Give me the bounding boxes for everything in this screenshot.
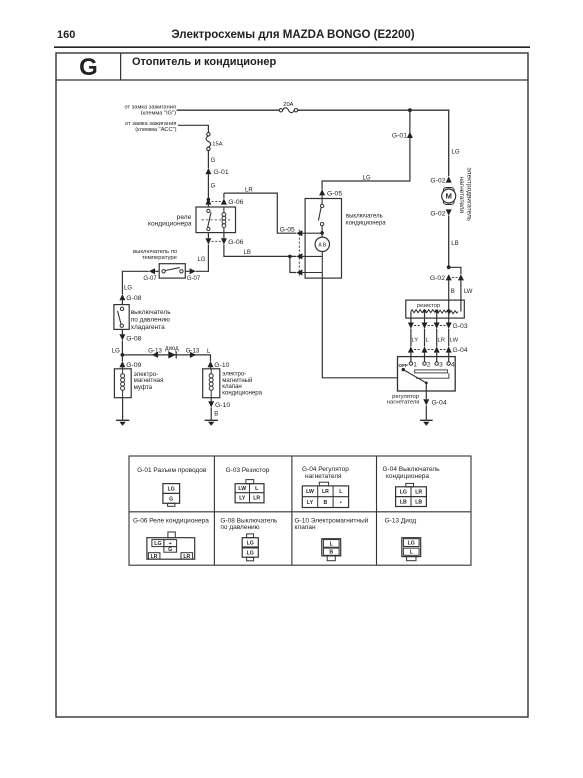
svg-text:B: B — [214, 411, 218, 417]
cell G-04 выключатель кондиционера — [383, 466, 441, 480]
svg-text:муфта: муфта — [134, 384, 153, 391]
svg-text:кондиционера: кондиционера — [148, 221, 192, 228]
svg-text:температуре: температуре — [142, 255, 178, 261]
connector G-08 top — [119, 294, 141, 302]
svg-text:LR: LR — [253, 496, 260, 502]
svg-text:электродвигатель: электродвигатель — [466, 168, 473, 222]
connector G-05 top — [319, 189, 342, 197]
junction dot LB split — [447, 265, 451, 269]
svg-text:G-04 Выключатель: G-04 Выключатель — [383, 466, 441, 473]
wire pin1 stub — [302, 232, 322, 234]
svg-text:A B: A B — [318, 242, 326, 248]
svg-text:G: G — [211, 183, 216, 189]
svg-text:по давлению: по давлению — [131, 317, 170, 324]
connector G-07 left — [143, 268, 159, 282]
connector G-08 bottom — [119, 329, 141, 342]
cell G-08 выключатель по давлению — [220, 518, 278, 532]
svg-text:LB: LB — [415, 500, 422, 506]
wire IG feed right segment — [298, 109, 450, 111]
svg-text:G-01 Разъем проводов: G-01 Разъем проводов — [137, 467, 207, 474]
svg-text:клапан: клапан — [295, 524, 316, 531]
wire valve to ground — [210, 407, 212, 419]
connector G-13 right — [186, 348, 200, 358]
svg-text:магнитный: магнитный — [222, 377, 252, 384]
wire branch to LW — [449, 267, 461, 274]
junction dot at relay feed — [207, 198, 211, 202]
svg-text:LG: LG — [197, 257, 205, 263]
connector G-01 (on LG wire) — [392, 132, 413, 140]
svg-text:G: G — [79, 54, 98, 81]
cell G-04 регулятор нагнетателя — [302, 466, 349, 480]
ground (regulator) — [420, 420, 433, 426]
relay A/C (реле кондиционера) — [196, 207, 236, 233]
label pressure switch — [131, 309, 172, 331]
connector G-06 top pair — [205, 198, 243, 206]
wire label B — [214, 411, 218, 417]
connector G-07 right — [185, 268, 201, 282]
svg-text:кондиционера: кондиционера — [222, 391, 262, 397]
wire ACC feed — [178, 125, 208, 132]
svg-text:LB: LB — [451, 241, 458, 247]
junction dot at IG split — [408, 108, 412, 112]
svg-text:LG: LG — [363, 176, 371, 182]
wire clutch to ground — [122, 398, 124, 420]
svg-text:выключатель: выключатель — [131, 309, 172, 316]
svg-text:G-08: G-08 — [126, 295, 141, 302]
wire relay bottom stubs — [208, 233, 224, 239]
connector drawing G-13 — [402, 538, 421, 561]
label выключатель по температуре — [133, 249, 178, 261]
cell G-06 реле кондиционера — [133, 518, 209, 525]
label реле кондиционера — [148, 214, 192, 228]
blower motor M — [442, 188, 456, 205]
svg-text:G-02: G-02 — [430, 178, 445, 185]
wire temp switch to pressure switch — [122, 271, 148, 294]
resistor block G-03 (резистор) — [406, 300, 465, 318]
wire labels LY L LR LW — [412, 337, 459, 343]
junction dot LB — [288, 255, 292, 259]
svg-text:LG: LG — [400, 490, 407, 496]
svg-text:B: B — [451, 289, 455, 295]
svg-text:G-07: G-07 — [187, 276, 201, 282]
ground (clutch) — [116, 420, 129, 426]
svg-text:B: B — [324, 500, 328, 506]
svg-text:G-05: G-05 — [327, 190, 342, 197]
svg-text:G: G — [168, 547, 172, 553]
svg-text:2: 2 — [427, 361, 431, 368]
fuse 20A — [279, 108, 298, 113]
connector G-02 above motor — [430, 176, 451, 184]
wire pin3 stub — [302, 256, 322, 278]
connector G-09 — [119, 355, 141, 369]
fuse 15A — [206, 133, 211, 151]
wire blower feed — [448, 110, 451, 176]
page title — [171, 29, 414, 41]
svg-text:нагнетателя: нагнетателя — [458, 177, 465, 214]
svg-text:(клемма "АСС"): (клемма "АСС") — [135, 127, 176, 133]
temperature switch (выключатель по температуре) — [159, 264, 185, 278]
svg-text:LG: LG — [452, 150, 460, 156]
svg-text:LR: LR — [151, 554, 158, 560]
svg-text:G-10: G-10 — [215, 402, 230, 409]
svg-text:160: 160 — [57, 29, 75, 41]
label выключатель кондиционера — [346, 214, 386, 227]
connector drawing G-03 — [235, 480, 264, 503]
cell G-03 резистор — [226, 467, 270, 474]
svg-text:G-03: G-03 — [453, 323, 468, 330]
svg-text:диод: диод — [165, 346, 179, 352]
svg-text:20A: 20A — [283, 102, 293, 108]
wire pin2 stub — [302, 255, 322, 257]
svg-text:нагнетателя: нагнетателя — [305, 473, 342, 480]
connector drawing G-01 — [163, 484, 180, 507]
svg-text:LG: LG — [154, 541, 161, 547]
A/C solenoid valve (электромагнитный клапан) — [203, 367, 220, 397]
A/C switch box (выключатель кондиционера) — [305, 195, 341, 278]
svg-text:по давлению: по давлению — [220, 524, 259, 531]
connector G-04 row — [408, 346, 468, 354]
svg-text:G-06 Реле кондиционера: G-06 Реле кондиционера — [133, 518, 209, 525]
svg-text:G: G — [211, 158, 216, 164]
svg-text:выключатель по: выключатель по — [133, 249, 178, 255]
svg-text:LG: LG — [408, 541, 415, 547]
connector drawing G-10 — [322, 539, 341, 561]
wire label LG (blower) — [452, 150, 460, 156]
svg-text:G-05: G-05 — [280, 227, 295, 234]
svg-text:M: M — [446, 192, 452, 201]
svg-text:G-03 Резистор: G-03 Резистор — [226, 467, 270, 474]
svg-text:LG: LG — [112, 349, 120, 355]
svg-text:G-04 Регулятор: G-04 Регулятор — [302, 466, 349, 473]
wire label LG — [112, 349, 120, 355]
svg-text:хладагента: хладагента — [131, 324, 165, 331]
svg-text:кондиционера: кондиционера — [346, 220, 386, 226]
wire to diode junction — [121, 340, 123, 355]
svg-text:LG: LG — [124, 285, 132, 291]
label blower motor (vertical) — [458, 168, 472, 222]
svg-text:LG: LG — [247, 551, 254, 557]
svg-text:LY: LY — [239, 496, 246, 502]
wire A/C switch to regulator — [322, 278, 397, 378]
section title — [132, 56, 277, 68]
connector G-10 bottom — [208, 398, 230, 410]
svg-text:кондиционера: кондиционера — [386, 473, 429, 480]
svg-text:4: 4 — [451, 361, 455, 368]
svg-text:LW: LW — [464, 289, 473, 295]
svg-text:G-04: G-04 — [453, 347, 468, 354]
refrigerant pressure switch (выключатель по давлению хладагента) — [114, 305, 129, 330]
svg-text:G-13 Диод: G-13 Диод — [385, 518, 417, 525]
wire LG relay to temp switch — [196, 245, 209, 272]
wires resistor to G-03 — [411, 318, 449, 323]
wire G-01 to relay — [207, 174, 209, 207]
svg-text:G-01: G-01 — [392, 133, 407, 140]
wire LB motor return — [448, 216, 450, 268]
svg-text:B: B — [329, 550, 333, 556]
wire label G — [211, 183, 216, 189]
svg-text:Отопитель и кондиционер: Отопитель и кондиционер — [132, 56, 277, 68]
indicator lamp A B — [315, 237, 329, 256]
connector G-02 below motor — [430, 209, 451, 217]
svg-text:клапан: клапан — [222, 384, 241, 390]
wire diode row — [122, 355, 210, 361]
wire LR relay to A/C switch — [224, 188, 296, 234]
svg-text:•: • — [340, 500, 342, 506]
node IG: ignition switch source label — [124, 105, 176, 117]
cell G-10 электромагнитный клапан — [295, 517, 369, 532]
svg-text:1: 1 — [413, 361, 417, 368]
wire IG feed left segment — [177, 109, 280, 111]
svg-text:LR: LR — [245, 188, 253, 194]
page number — [57, 29, 75, 41]
wires G-04 into regulator pins — [411, 353, 449, 362]
svg-text:нагнетателя: нагнетателя — [387, 400, 420, 406]
connector G-03 row — [408, 323, 468, 331]
wire label B — [451, 289, 455, 295]
connector G-04 below regulator — [423, 391, 447, 407]
blower regulator box (регулятор нагнетателя) — [398, 357, 456, 391]
svg-text:G-13: G-13 — [186, 348, 200, 355]
connector drawing G-08 — [242, 534, 258, 561]
connector G-10 top — [208, 361, 230, 369]
svg-text:LW: LW — [450, 337, 459, 343]
svg-text:G-02: G-02 — [430, 275, 445, 282]
svg-text:Электросхемы для MAZDA BONGO (: Электросхемы для MAZDA BONGO (E2200) — [171, 29, 414, 41]
svg-text:+: + — [169, 541, 172, 547]
svg-text:LW: LW — [238, 486, 246, 492]
cell G-01 разъем проводов — [137, 467, 207, 474]
wire G segment — [207, 151, 209, 169]
wire label LB — [451, 241, 458, 247]
svg-text:G-13: G-13 — [148, 348, 162, 355]
connector drawing G-06 relay — [147, 532, 195, 559]
wire label LG — [363, 176, 371, 182]
svg-text:G-06: G-06 — [228, 239, 243, 246]
svg-text:G-07: G-07 — [143, 276, 157, 282]
wire to ground — [425, 405, 427, 419]
svg-text:G-04: G-04 — [432, 400, 447, 407]
wires G-03 to G-04 — [411, 329, 449, 347]
header rule — [54, 46, 530, 48]
cell G-13 диод — [385, 518, 417, 525]
svg-text:LY: LY — [307, 500, 314, 506]
node ACC: ignition switch source label — [125, 121, 177, 133]
wire into pressure switch — [121, 300, 123, 304]
connector table frame — [129, 456, 471, 565]
connector G-13 left — [148, 348, 162, 358]
wires into resistor — [448, 280, 450, 300]
svg-text:G-08: G-08 — [126, 335, 141, 342]
svg-text:электро-: электро- — [222, 371, 246, 377]
svg-text:LB: LB — [244, 250, 251, 256]
svg-text:LW: LW — [306, 489, 314, 495]
diode (диод) — [165, 346, 179, 359]
svg-text:LG: LG — [168, 487, 175, 493]
connector drawing G-04 regulator — [302, 482, 348, 507]
svg-text:LG: LG — [247, 541, 254, 547]
svg-text:(клемма "IG"): (клемма "IG") — [141, 110, 177, 116]
wire LB relay to A/C switch — [224, 245, 296, 257]
wire label L — [207, 349, 211, 355]
svg-text:LY: LY — [412, 337, 419, 343]
section letter G — [79, 54, 98, 81]
connector G-06 bottom pair — [205, 238, 243, 246]
wire branch down to G-01 and A/C switch — [322, 110, 410, 189]
svg-text:G-06: G-06 — [228, 199, 243, 206]
diagram frame — [56, 53, 528, 717]
svg-text:LR: LR — [415, 490, 422, 496]
ground (valve) — [205, 420, 218, 426]
junction dot LG — [121, 353, 125, 357]
wire label G — [211, 158, 216, 164]
connector G-02 pair above resistor — [430, 274, 464, 282]
svg-text:выключатель: выключатель — [346, 214, 383, 220]
wire LB loop to pin 3 — [290, 256, 296, 272]
label регулятор нагнетателя — [387, 394, 420, 405]
connector G-05 left column — [280, 227, 303, 276]
svg-text:G-02: G-02 — [430, 210, 445, 217]
electromagnetic clutch coil (электромагнитная муфта) — [114, 367, 131, 397]
svg-text:LB: LB — [400, 500, 407, 506]
svg-text:3: 3 — [439, 361, 443, 368]
svg-text:LR: LR — [322, 489, 329, 495]
connector G-01 — [205, 168, 228, 176]
wire label LW — [464, 289, 473, 295]
svg-text:G-01: G-01 — [214, 169, 229, 176]
svg-text:G-09: G-09 — [126, 362, 141, 369]
svg-text:резистор: резистор — [417, 303, 440, 309]
connector drawing G-04 switch — [396, 483, 427, 506]
label электромагнитный клапан кондиционера — [222, 371, 262, 396]
label электромагнитная муфта — [134, 371, 164, 391]
svg-text:G-10: G-10 — [214, 362, 229, 369]
svg-text:G: G — [169, 496, 173, 502]
svg-text:LR: LR — [183, 554, 190, 560]
svg-text:LR: LR — [438, 337, 445, 343]
svg-text:15A: 15A — [212, 141, 222, 147]
